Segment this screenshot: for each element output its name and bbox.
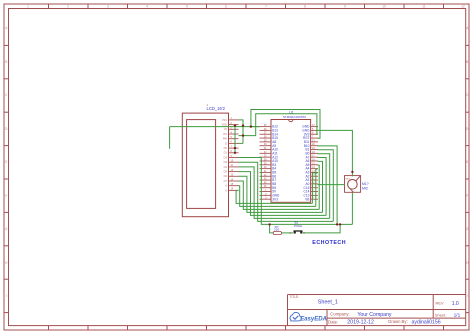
svg-text:MIC: MIC: [362, 186, 369, 190]
svg-text:2019-12-12: 2019-12-12: [347, 320, 374, 326]
svg-text:B: B: [466, 60, 468, 64]
svg-text:6: 6: [225, 4, 227, 8]
svg-text:Drawn By:: Drawn By:: [388, 319, 407, 324]
svg-text:REV: REV: [436, 301, 445, 306]
svg-text:Company:: Company:: [330, 312, 350, 317]
svg-text:E: E: [466, 160, 468, 164]
svg-text:4: 4: [146, 4, 148, 8]
svg-text:220: 220: [274, 228, 279, 232]
svg-text:D1: D1: [224, 151, 228, 155]
svg-text:EasyEDA: EasyEDA: [300, 317, 327, 323]
svg-text:D7: D7: [224, 179, 228, 183]
svg-text:VSS: VSS: [222, 118, 227, 122]
svg-text:7: 7: [265, 4, 267, 8]
svg-text:E: E: [5, 160, 7, 164]
svg-text:Sheet_1: Sheet_1: [318, 299, 338, 305]
svg-text:K: K: [225, 188, 227, 192]
svg-text:M1?: M1?: [362, 182, 369, 186]
svg-text:8: 8: [304, 4, 306, 8]
svg-text:1: 1: [27, 4, 29, 8]
svg-text:RS: RS: [223, 132, 227, 136]
svg-text:I: I: [467, 294, 468, 298]
svg-text:A: A: [225, 184, 227, 188]
svg-text:RW: RW: [223, 137, 228, 141]
svg-text:PUSH: PUSH: [294, 224, 302, 228]
svg-text:3: 3: [107, 4, 109, 8]
svg-text:ECHOTECH: ECHOTECH: [312, 240, 346, 246]
svg-text:10: 10: [382, 4, 386, 8]
svg-text:F: F: [5, 194, 7, 198]
svg-text:F: F: [466, 194, 468, 198]
svg-text:V0: V0: [224, 127, 228, 131]
svg-text:D4: D4: [224, 165, 228, 169]
svg-text:aydinali0156: aydinali0156: [412, 319, 441, 325]
svg-text:12: 12: [461, 4, 465, 8]
svg-text:D0: D0: [224, 146, 228, 150]
svg-text:VDD: VDD: [222, 123, 228, 127]
svg-text:B: B: [5, 60, 7, 64]
svg-text:TITLE:: TITLE:: [290, 295, 300, 299]
svg-text:D6: D6: [224, 174, 228, 178]
svg-text:2: 2: [67, 4, 69, 8]
svg-text:E: E: [225, 141, 227, 145]
svg-text:1.0: 1.0: [452, 301, 459, 307]
svg-text:5: 5: [186, 4, 188, 8]
svg-text:Your Company: Your Company: [357, 312, 392, 318]
svg-text:D5: D5: [224, 170, 228, 174]
svg-text:STM32F103C8T6: STM32F103C8T6: [283, 115, 306, 119]
svg-text:Sheet:: Sheet:: [435, 312, 447, 317]
svg-text:11: 11: [422, 4, 426, 8]
svg-text:1/1: 1/1: [454, 312, 461, 318]
svg-text:D2: D2: [224, 155, 228, 159]
svg-text:3V3: 3V3: [272, 197, 278, 201]
svg-text:D3: D3: [224, 160, 228, 164]
svg-text:LCD_16'2: LCD_16'2: [207, 106, 226, 111]
svg-text:I: I: [6, 294, 7, 298]
svg-text:9: 9: [344, 4, 346, 8]
svg-text:VB: VB: [305, 197, 309, 201]
svg-text:Date:: Date:: [328, 319, 338, 324]
